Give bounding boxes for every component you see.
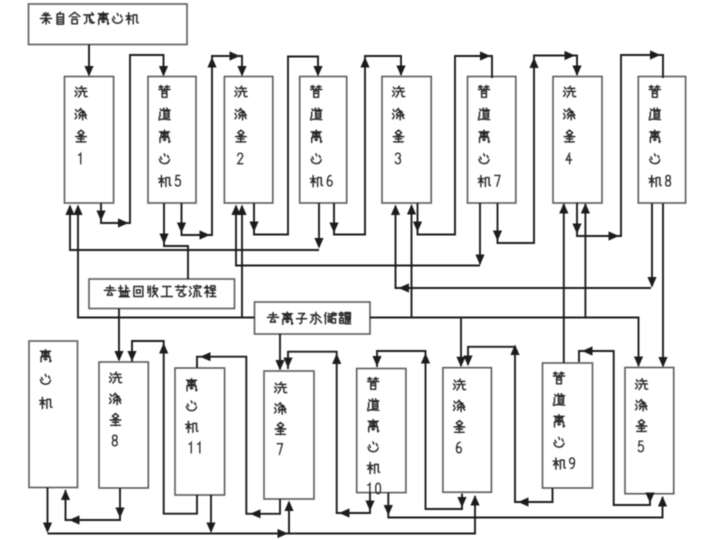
wire: centrifuge-11 to wash-kettle-8 top — [132, 341, 197, 514]
box: wash-kettle-7 洗涤釜7 — [264, 371, 314, 499]
box: centrifuge 离心机 — [29, 341, 78, 488]
wire: wash-kettle-3 to pipeline-centrifuge-7 — [418, 56, 493, 235]
box: deionized-water-tank 去离子水储罐 — [255, 302, 371, 334]
wire: wash-kettle-5 to pipeline-centrifuge-9 top — [579, 351, 650, 505]
box: pipeline-centrifuge-10 管道离心机10 — [357, 369, 406, 493]
wire: pipeline-centrifuge-6 down to bus1 — [318, 203, 320, 247]
wire: pipeline-centrifuge-5 to salt-recovery box — [164, 203, 188, 279]
wire: top box to wash-kettle-1 — [88, 45, 90, 76]
wire: centrifuge down to bottom bus — [47, 488, 49, 532]
box: centrifuge-11 离心机11 — [175, 368, 225, 495]
wire: tank right bus down to wash-kettle-5 top — [370, 318, 639, 367]
box: pipeline-centrifuge-9 管道离心机9 — [543, 363, 593, 488]
box: pipeline-centrifuge-7 管道离心机7 — [468, 77, 516, 204]
box: to-salt-recovery 去盐回收工艺流程 — [89, 279, 235, 309]
wire: tank bottom to wash-kettle-7 top — [279, 334, 281, 370]
wire: bus2 to wash-kettle-2 bottom — [236, 206, 480, 266]
box: wash-kettle-1 洗涤釜1 — [65, 77, 114, 204]
wire: bus1 to wash-kettle-1 bottom — [70, 206, 319, 250]
wire: pipeline-centrifuge-5 to wash-kettle-2 — [182, 56, 243, 235]
box: from-synthesis-centrifuge 来自合成离心机 — [29, 4, 188, 45]
wire: tank left bus to wash-kettle-1 bottom — [78, 206, 255, 318]
wire: pipeline-centrifuge-7 down to bus2 — [479, 203, 481, 264]
wire: pipeline-centrifuge-6 to wash-kettle-3 — [334, 56, 401, 235]
box: pipeline-centrifuge-6 管道离心机6 — [300, 77, 347, 204]
wire: wash-kettle-8 to centrifuge bottom — [66, 488, 121, 520]
wire: pipeline-centrifuge-8 down to bus3 — [651, 204, 653, 287]
wire: bottom bus to wash-kettle-6 bottom — [48, 496, 476, 534]
wire: pipeline-centrifuge-10 to wash-kettle-7 top — [288, 352, 370, 513]
box: wash-kettle-2 洗涤釜2 — [224, 77, 272, 204]
wire: wash-kettle-7 to centrifuge-11 top — [197, 357, 280, 514]
box: wash-kettle-8 洗涤釜8 — [99, 362, 148, 488]
box: wash-kettle-4 洗涤釜4 — [553, 77, 602, 204]
box: pipeline-centrifuge-5 管道离心机5 — [148, 77, 196, 204]
wire: pipeline-centrifuge-8 down to wash-kettle-5 top — [662, 204, 664, 367]
wire: pipeline-centrifuge-7 to wash-kettle-4 — [498, 56, 578, 244]
wire: wash-kettle-6 to pipeline-centrifuge-10 top — [377, 351, 462, 509]
box: pipeline-centrifuge-8 管道离心机8 — [638, 77, 685, 204]
wire: riser to wash-kettle-3 bottom — [411, 206, 413, 319]
wire: pipeline-centrifuge-9 top riser to wash-kettle-4 bottom — [563, 204, 565, 363]
wire: bus3 to wash-kettle-3 bottom — [396, 206, 652, 288]
wire: riser to wash-kettle-4 bottom — [584, 204, 586, 318]
wire: wash-kettle-4 to pipeline-centrifuge-8 — [577, 55, 663, 236]
wire: riser to wash-kettle-2 bottom — [241, 206, 243, 318]
wire: pipeline-centrifuge-9 to wash-kettle-6 top — [468, 347, 553, 502]
wire: bottom bus branch up to wash-kettle-7 bottom — [288, 502, 290, 534]
box: wash-kettle-3 洗涤釜3 — [382, 77, 431, 204]
wire: wash-kettle-1 to pipeline-centrifuge-5 — [101, 55, 164, 223]
wire: centrifuge-11 down to bottom bus — [210, 495, 212, 532]
wire: wash-kettle-2 to pipeline-centrifuge-6 — [254, 57, 318, 235]
box: wash-kettle-6 洗涤釜6 — [443, 368, 492, 493]
wire: tank bus branch down to wash-kettle-6 top — [460, 318, 462, 366]
wire: pipeline-centrifuge-10 to wash-kettle-5 bottom — [388, 493, 662, 518]
box: wash-kettle-5 洗涤釜5 — [625, 368, 674, 494]
wire: salt-recovery box down to wash-kettle-8 top — [118, 309, 120, 361]
